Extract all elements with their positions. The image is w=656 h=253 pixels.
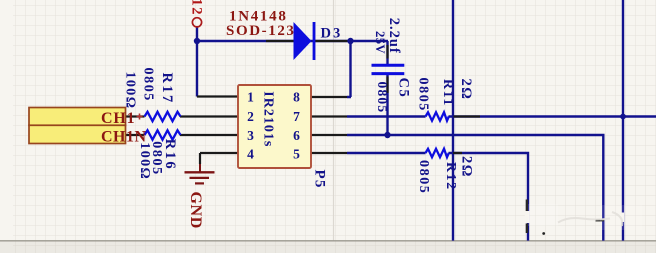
svg-text:2: 2 bbox=[247, 109, 254, 124]
svg-text:5: 5 bbox=[293, 146, 300, 161]
junction node at 12V rail bbox=[194, 38, 200, 44]
svg-text:0805: 0805 bbox=[416, 160, 431, 194]
wire pin6 net with corner down bbox=[347, 135, 603, 241]
svg-text:4: 4 bbox=[247, 146, 254, 161]
svg-text:8: 8 bbox=[293, 90, 300, 105]
junction dot at cap bottom bbox=[384, 132, 390, 138]
svg-text:2Ω: 2Ω bbox=[458, 79, 474, 101]
svg-text:0805: 0805 bbox=[375, 82, 390, 114]
svg-text:3: 3 bbox=[247, 128, 254, 143]
wire pin7 to R11 bbox=[347, 115, 426, 117]
svg-text:R16: R16 bbox=[162, 139, 178, 171]
resistor R12 bbox=[426, 149, 449, 157]
diode D3 cathode bar bbox=[313, 22, 316, 60]
sheet bottom border bbox=[0, 240, 656, 242]
wire 12V vertical drop bbox=[196, 27, 198, 97]
wire cap stem bbox=[386, 41, 388, 135]
capacitor C5 plates bbox=[372, 65, 405, 73]
resistor R11 bbox=[426, 112, 449, 120]
wire pin5 to R12 bbox=[347, 152, 426, 154]
watermark fragments bbox=[525, 200, 642, 235]
svg-text:1: 1 bbox=[247, 90, 254, 105]
svg-text:0805: 0805 bbox=[149, 141, 164, 175]
IC P5 body (IR2101s) bbox=[238, 85, 311, 168]
svg-text:IR2101s: IR2101s bbox=[261, 91, 276, 147]
svg-text:100Ω: 100Ω bbox=[123, 72, 138, 110]
svg-text:0805: 0805 bbox=[416, 78, 431, 112]
svg-text:6: 6 bbox=[293, 128, 300, 143]
svg-text:12: 12 bbox=[189, 0, 205, 16]
junction dot on wire B bbox=[620, 114, 626, 120]
svg-text:SOD-123: SOD-123 bbox=[226, 23, 296, 39]
wire vertical A bbox=[452, 0, 454, 241]
svg-text:GND: GND bbox=[187, 192, 204, 229]
wire top net to diode and cap bbox=[197, 40, 388, 42]
svg-text:R11: R11 bbox=[440, 79, 455, 107]
svg-text:R12: R12 bbox=[443, 162, 458, 191]
power port 12V circle bbox=[192, 18, 201, 27]
junction dot at diode cathode bbox=[347, 38, 353, 44]
resistor R17 bbox=[145, 112, 181, 121]
svg-text:0805: 0805 bbox=[141, 68, 156, 102]
svg-text:R17: R17 bbox=[159, 73, 175, 105]
wire R11 right to edge bbox=[449, 115, 656, 117]
wire diode cathode down to pin 8 bbox=[347, 41, 351, 97]
svg-text:7: 7 bbox=[293, 109, 300, 124]
svg-text:C5: C5 bbox=[396, 78, 412, 99]
svg-text:2.2uf: 2.2uf bbox=[386, 18, 402, 54]
pin stubs black bbox=[124, 41, 480, 164]
resistor R16 bbox=[145, 130, 181, 139]
connector pad CH1 bbox=[29, 108, 126, 126]
svg-text:CH1: CH1 bbox=[101, 110, 135, 127]
svg-text:25V: 25V bbox=[373, 31, 387, 54]
wire vertical B bbox=[622, 0, 624, 241]
no-ERC cross bbox=[137, 114, 143, 120]
major gridline bbox=[333, 0, 335, 241]
diode D3 triangle bbox=[294, 22, 312, 60]
wire R12 right with corner down bbox=[449, 153, 529, 241]
svg-text:2Ω: 2Ω bbox=[459, 156, 475, 178]
connector pad CH1N bbox=[29, 125, 126, 143]
ground symbol bbox=[199, 164, 201, 172]
svg-text:P5: P5 bbox=[312, 170, 328, 189]
svg-text:D3: D3 bbox=[321, 26, 343, 42]
